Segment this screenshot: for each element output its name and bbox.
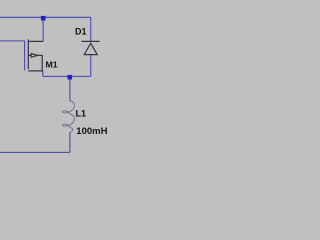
node junction J1 <box>41 16 46 21</box>
M1 body line <box>28 55 42 71</box>
wire gate lead <box>0 41 25 71</box>
svg-text:D1: D1 <box>75 26 87 36</box>
M1 source stub <box>28 70 43 72</box>
D1 cathode bar <box>82 40 100 42</box>
transistor M1 <box>28 39 43 71</box>
wire source lead <box>42 71 44 77</box>
wire inductor bottom lead <box>69 132 71 152</box>
wire inductor top lead <box>69 76 71 101</box>
wire diode bottom lead <box>90 54 92 76</box>
M1 channel bar <box>27 39 29 69</box>
svg-text:L1: L1 <box>76 109 87 119</box>
svg-text:100mH: 100mH <box>76 126 107 137</box>
inductor L1 <box>63 101 75 132</box>
wire bottom node rail <box>43 75 91 77</box>
D1 anode triangle <box>84 43 97 54</box>
wire drain lead <box>42 17 44 41</box>
diode D1 <box>82 41 100 54</box>
wire diode top lead <box>90 17 92 41</box>
wire bottom left rail <box>0 151 70 153</box>
node junction J2 <box>68 75 73 80</box>
svg-text:M1: M1 <box>46 60 58 70</box>
M1 drain stub <box>28 40 43 42</box>
wire top rail <box>0 16 91 18</box>
M1 body arrow <box>31 54 38 58</box>
